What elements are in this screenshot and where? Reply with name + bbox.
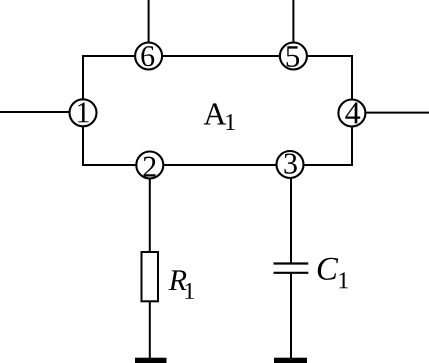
pin 1 circle (70, 99, 97, 126)
capacitor C1 bottom plate (274, 272, 309, 274)
wire resistor R1 to ground (149, 301, 151, 359)
ground bar under R1 (135, 358, 167, 363)
capacitor C1 top plate (274, 262, 309, 264)
pin 2 circle (136, 152, 163, 179)
wire capacitor C1 to ground (290, 274, 292, 359)
label C1 (318, 258, 348, 288)
wire from top edge down to pin 6 (148, 0, 150, 43)
wire pin 2 down to resistor R1 (149, 178, 151, 253)
pin 5 circle (280, 43, 307, 70)
label R1 (169, 270, 194, 298)
label A1 (204, 103, 235, 130)
pin 2 number (144, 157, 156, 177)
pin 4 number (345, 102, 360, 123)
pin 3 number (284, 154, 296, 174)
pin 3 circle (277, 151, 304, 178)
wire pin 3 down to capacitor C1 (290, 178, 292, 263)
ground bar under C1 (274, 358, 307, 363)
pin 6 circle (135, 43, 162, 70)
resistor R1 body (142, 252, 159, 301)
wire from top edge down to pin 5 (292, 0, 294, 43)
pin 5 number (287, 46, 299, 67)
pin 6 number (141, 46, 154, 66)
wire from pin 4 to right edge (365, 112, 429, 114)
pin 1 number (78, 102, 89, 122)
wire from left edge to pin 1 (0, 111, 70, 113)
amplifier block A1 outline (83, 56, 352, 165)
pin 4 circle (338, 100, 365, 127)
